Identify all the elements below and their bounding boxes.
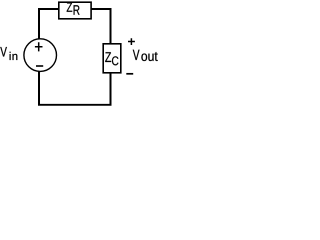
label Z of Z_R: [67, 2, 73, 11]
label R subscript of Z_R: [74, 5, 80, 14]
plus sign of v_out polarity: [128, 38, 135, 45]
plus sign inside source: [35, 42, 43, 51]
wire from source bottom to bottom-left corner: [38, 71, 40, 104]
bottom wire: [38, 104, 112, 106]
impedance box Z_R: [59, 2, 91, 19]
voltage source V1 circle: [24, 39, 57, 72]
minus sign inside source: [36, 65, 43, 67]
label V of V_in: [0, 47, 7, 57]
label in subscript of V_in: [10, 52, 18, 60]
label C subscript of Z_C: [112, 56, 118, 65]
wire from Z_C box bottom to bottom-right corner: [110, 73, 112, 105]
label out subscript of v_out: [141, 52, 157, 61]
label Z of Z_C: [105, 52, 111, 62]
wire from Z_R box right to Z_C box top (top-right corner): [91, 9, 111, 44]
impedance box Z_C: [103, 44, 121, 73]
label V of v_out: [133, 50, 140, 60]
minus sign of v_out polarity: [126, 73, 133, 75]
wire from source top to Z_R box left (top-left corner): [39, 9, 59, 39]
